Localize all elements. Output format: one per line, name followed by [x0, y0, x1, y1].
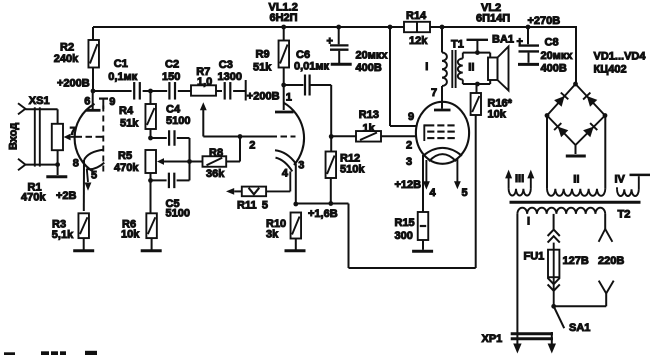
svg-text:51k: 51k [120, 118, 139, 130]
svg-text:10k: 10k [488, 109, 507, 121]
svg-text:C1: C1 [114, 58, 128, 70]
svg-text:5: 5 [262, 200, 268, 212]
svg-text:5100: 5100 [166, 208, 190, 220]
svg-text:9: 9 [109, 96, 115, 108]
svg-text:127В: 127В [563, 255, 589, 267]
svg-text:300: 300 [395, 230, 413, 242]
svg-text:4: 4 [282, 168, 289, 180]
svg-text:220В: 220В [598, 255, 624, 267]
svg-text:R11: R11 [237, 200, 257, 212]
svg-text:R8: R8 [209, 147, 223, 159]
svg-text:R14: R14 [406, 10, 427, 22]
svg-text:510k: 510k [340, 164, 365, 176]
svg-text:1300: 1300 [218, 71, 242, 83]
svg-text:0,1мк: 0,1мк [108, 71, 137, 83]
svg-text:FU1: FU1 [524, 250, 545, 262]
svg-text:VD1...VD4: VD1...VD4 [594, 50, 647, 62]
svg-text:470k: 470k [21, 192, 46, 204]
svg-text:+270В: +270В [528, 15, 561, 27]
svg-text:Вход: Вход [8, 123, 20, 150]
svg-text:II: II [468, 61, 474, 73]
svg-text:+1,6В: +1,6В [308, 208, 338, 220]
svg-text:8: 8 [73, 157, 79, 169]
svg-text:C3: C3 [219, 59, 233, 71]
svg-text:C6: C6 [296, 49, 310, 61]
svg-text:XS1: XS1 [29, 95, 50, 107]
svg-text:R16*: R16* [488, 97, 513, 109]
svg-text:5100: 5100 [166, 115, 190, 127]
svg-text:400В: 400В [356, 62, 382, 74]
svg-text:I: I [527, 215, 530, 227]
svg-text:T2: T2 [618, 209, 631, 221]
svg-text:400В: 400В [541, 62, 567, 74]
svg-text:C8: C8 [545, 36, 559, 48]
svg-text:5: 5 [462, 187, 468, 199]
svg-text:20мкх: 20мкх [356, 49, 389, 61]
svg-text:R2: R2 [60, 42, 74, 54]
svg-text:+2В: +2В [56, 190, 77, 202]
svg-text:BA1: BA1 [492, 33, 514, 45]
svg-text:1,0: 1,0 [197, 76, 212, 88]
svg-text:R12: R12 [340, 152, 360, 164]
svg-text:+: + [517, 36, 523, 48]
svg-text:R5: R5 [118, 150, 132, 162]
svg-text:10k: 10k [121, 228, 140, 240]
svg-text:+12В: +12В [395, 179, 422, 191]
svg-text:36k: 36k [206, 168, 225, 180]
svg-text:+200В: +200В [57, 78, 90, 90]
svg-text:6: 6 [84, 95, 90, 107]
svg-text:1k: 1k [363, 122, 376, 134]
svg-text:6Н2П: 6Н2П [270, 12, 298, 24]
svg-text:3k: 3k [266, 228, 279, 240]
svg-text:12k: 12k [409, 35, 428, 47]
svg-text:9: 9 [408, 111, 414, 123]
svg-text:7: 7 [431, 87, 437, 99]
svg-text:R4: R4 [119, 105, 134, 117]
svg-text:R13: R13 [359, 109, 379, 121]
svg-text:2: 2 [406, 140, 412, 152]
svg-text:T1: T1 [451, 38, 464, 50]
svg-text:4: 4 [430, 187, 437, 199]
svg-text:C4: C4 [166, 103, 181, 115]
svg-text:0,01мк: 0,01мк [294, 61, 330, 73]
svg-text:1: 1 [286, 92, 292, 104]
svg-text:470k: 470k [114, 162, 139, 174]
svg-text:I: I [425, 61, 428, 73]
svg-text:51k: 51k [253, 61, 272, 73]
svg-text:R15: R15 [395, 217, 415, 229]
svg-text:R9: R9 [256, 48, 270, 60]
svg-text:150: 150 [162, 71, 180, 83]
svg-text:+200В: +200В [247, 91, 280, 103]
svg-text:IV: IV [615, 173, 626, 185]
svg-text:III: III [515, 173, 524, 185]
svg-text:3: 3 [298, 159, 304, 171]
svg-text:5,1k: 5,1k [52, 229, 74, 241]
svg-text:C2: C2 [165, 58, 179, 70]
svg-text:+: + [327, 36, 333, 48]
svg-text:КЦ402: КЦ402 [594, 63, 627, 75]
svg-text:240k: 240k [54, 53, 79, 65]
svg-text:2: 2 [249, 140, 255, 152]
svg-text:3: 3 [406, 156, 412, 168]
svg-text:20мкх: 20мкх [541, 50, 574, 62]
svg-text:7: 7 [70, 125, 76, 137]
svg-text:II: II [573, 173, 579, 185]
svg-text:SA1: SA1 [569, 322, 590, 334]
svg-text:5: 5 [91, 169, 97, 181]
svg-text:6П14П: 6П14П [476, 12, 510, 24]
svg-text:ХР1: ХР1 [482, 333, 503, 345]
